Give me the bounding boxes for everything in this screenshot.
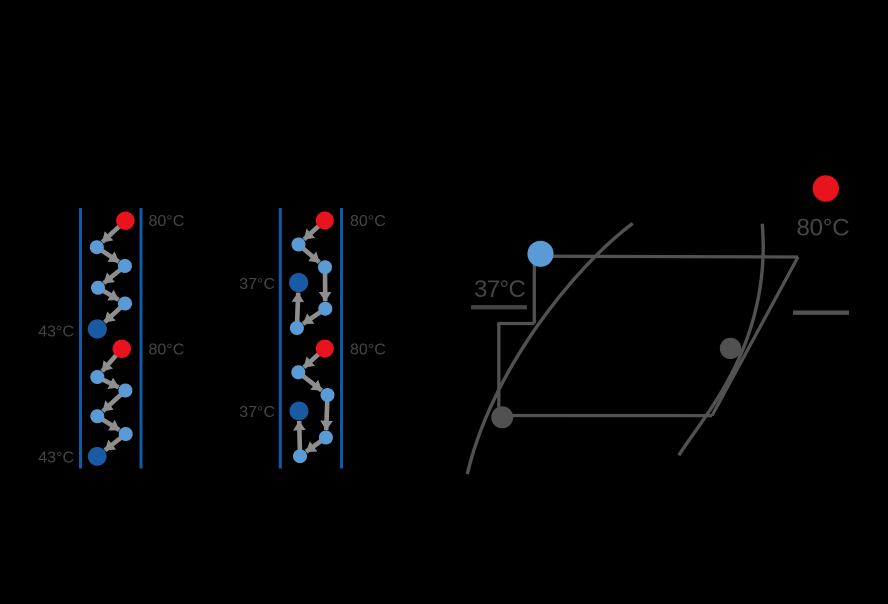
37C underline xyxy=(471,305,527,309)
legend dot red 80C xyxy=(813,175,839,201)
arrow xyxy=(102,349,122,372)
svg-text:37°C: 37°C xyxy=(239,404,275,421)
molecule xyxy=(90,240,104,254)
molecule xyxy=(90,370,104,384)
svg-text:80°C: 80°C xyxy=(149,342,185,359)
svg-text:80°C: 80°C xyxy=(149,213,185,230)
arrow xyxy=(97,247,119,262)
molecule xyxy=(119,427,133,441)
arrow xyxy=(105,434,126,450)
hot molecule xyxy=(113,340,131,358)
svg-text:43°C: 43°C xyxy=(38,324,74,341)
arrow xyxy=(303,309,325,324)
svg-text:80°C: 80°C xyxy=(350,213,386,230)
molecule xyxy=(292,238,306,252)
arrow xyxy=(97,377,118,387)
arrow xyxy=(298,372,321,390)
molecule xyxy=(91,281,105,295)
svg-text:37°C: 37°C xyxy=(474,276,525,303)
molecule xyxy=(316,340,334,358)
wire: channel 2 left wall xyxy=(279,208,282,469)
cold molecule xyxy=(289,273,308,292)
arrow xyxy=(97,416,119,430)
molecule xyxy=(290,321,304,335)
arrow xyxy=(297,293,298,328)
molecule xyxy=(118,384,132,398)
arrow xyxy=(306,438,326,452)
wire: channel 1 left wall xyxy=(79,208,82,469)
molecule xyxy=(118,297,132,311)
cycle top edge xyxy=(541,255,798,259)
svg-text:80°C: 80°C xyxy=(350,342,386,359)
arrow xyxy=(297,421,302,456)
left isostere curve xyxy=(467,223,632,474)
state point gray right xyxy=(720,338,741,359)
right isostere curve xyxy=(679,224,763,456)
molecule xyxy=(318,260,332,274)
arrow xyxy=(326,395,327,430)
arrow xyxy=(304,349,325,368)
arrow xyxy=(299,245,320,263)
svg-text:37°C: 37°C xyxy=(239,276,275,293)
step vertical xyxy=(497,322,500,415)
molecule xyxy=(293,449,307,463)
wire: channel 2 right wall xyxy=(340,208,343,469)
molecule xyxy=(318,302,332,316)
arrow xyxy=(98,288,119,300)
molecule xyxy=(316,212,334,230)
vertical drop below blue state point xyxy=(533,258,536,324)
state point blue 37C xyxy=(527,241,553,267)
molecule xyxy=(321,388,335,402)
arrow xyxy=(103,391,126,412)
cycle right edge xyxy=(712,257,798,416)
cold molecule xyxy=(88,447,107,466)
state point gray lower-left xyxy=(491,406,513,428)
molecule xyxy=(291,365,305,379)
step horizontal xyxy=(499,322,535,325)
arrow xyxy=(323,267,328,301)
arrow xyxy=(304,221,325,240)
wire: channel 1 right wall xyxy=(140,208,143,469)
legend tick segment xyxy=(793,311,849,315)
molecule xyxy=(118,259,132,273)
molecule xyxy=(90,409,104,423)
cold molecule xyxy=(290,402,309,421)
molecule xyxy=(319,431,333,445)
cold molecule xyxy=(88,319,107,338)
hot molecule xyxy=(116,212,134,230)
svg-text:43°C: 43°C xyxy=(38,450,74,467)
svg-text:80°C: 80°C xyxy=(797,215,850,242)
arrow xyxy=(105,304,125,323)
arrow xyxy=(104,266,125,283)
cycle bottom edge xyxy=(502,414,712,417)
arrow xyxy=(102,221,125,242)
